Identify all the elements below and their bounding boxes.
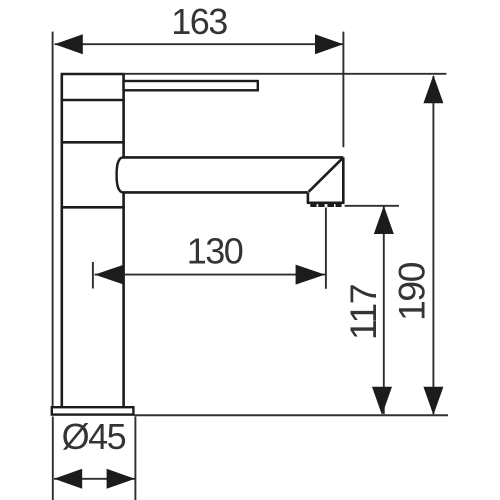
dimension 163 right arrow [315, 34, 343, 54]
aerator nozzle ticks [310, 204, 341, 207]
dimension 117 top arrow [374, 206, 394, 234]
dimension 163 right extension line [342, 32, 344, 148]
column section line 3 [61, 206, 125, 209]
diameter 45 dimension line [54, 478, 135, 480]
diameter 45 left arrow [54, 469, 82, 489]
spout outlet centerline [325, 208, 327, 289]
diameter 45 right extension line [134, 417, 136, 500]
dimension 117 bottom arrow [372, 387, 392, 415]
dimension 190 bottom arrow [423, 387, 443, 415]
dimension 117 line [383, 207, 385, 415]
dimension 130 right arrow [296, 265, 325, 285]
diameter 45 left extension line [52, 417, 54, 500]
aerator bottom edge [307, 202, 345, 205]
baseline (counter top line) [135, 414, 449, 416]
svg-text:190: 190 [390, 262, 432, 321]
svg-text:117: 117 [342, 285, 384, 340]
dimension 163 left extension line [52, 32, 54, 406]
dimension 190 line [432, 76, 434, 414]
spout bottom edge [122, 191, 308, 194]
diameter 45 right arrow [107, 469, 135, 489]
handle lever bar [124, 81, 258, 90]
dimension 130 left arrow [95, 265, 124, 285]
spout outlet extension line [345, 205, 399, 207]
spout right end edge [342, 157, 345, 203]
dimension 163 line [55, 43, 344, 45]
base flange [52, 407, 134, 414]
svg-text:Ø45: Ø45 [62, 416, 126, 457]
dimension 130 left tick [92, 262, 94, 289]
faucet body column [61, 74, 125, 407]
dimension 163 left arrow [55, 34, 83, 54]
dimension 190 top arrow [423, 75, 443, 103]
column section line 1 [61, 99, 125, 102]
spout top edge [122, 156, 343, 159]
aerator left edge [307, 192, 310, 203]
spout angled cut [309, 158, 343, 192]
svg-text:130: 130 [187, 231, 243, 272]
column section line 2 [61, 141, 125, 144]
spout left rounded cap [117, 157, 122, 192]
svg-text:163: 163 [171, 1, 227, 42]
dimension 130 line [95, 274, 325, 276]
faucet top extension line [125, 73, 447, 75]
